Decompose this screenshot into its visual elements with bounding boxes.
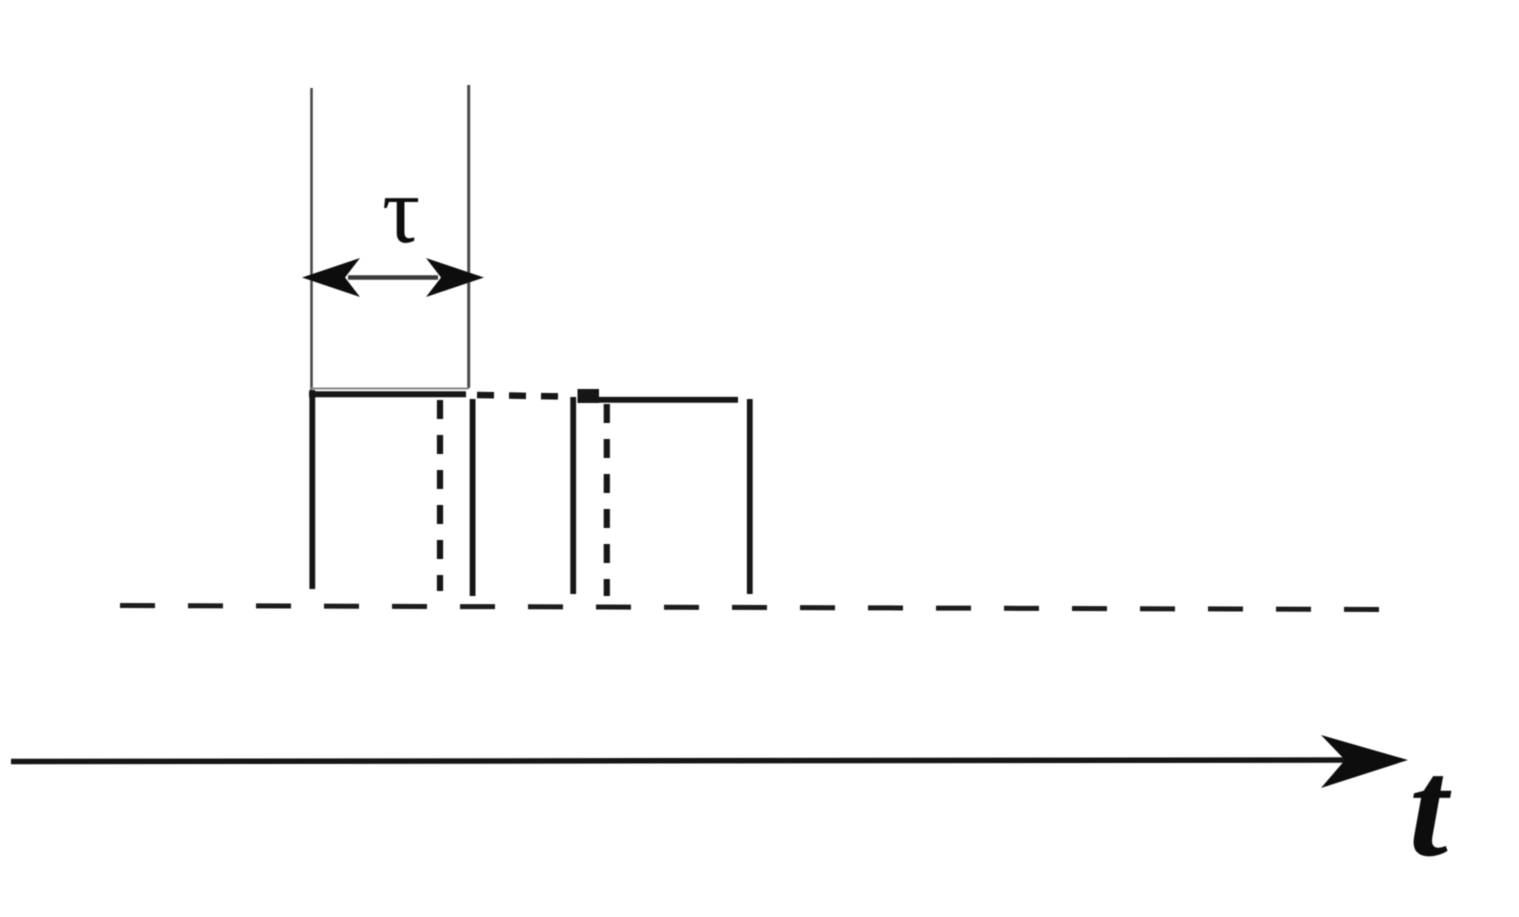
time axis — [11, 760, 1352, 762]
extension line left (tau measure) — [310, 88, 313, 391]
pulse 2 top — [595, 397, 738, 403]
thin top edge pulse 1 — [311, 388, 469, 390]
dimension arrow shaft — [348, 275, 438, 280]
svg-text:t: t — [1409, 731, 1452, 886]
dashed vertical (shifted pulse falling edge) — [604, 404, 610, 596]
arrowhead right — [426, 258, 484, 297]
pulse 1 falling edge — [470, 399, 476, 596]
pulse 2 corner blob — [578, 389, 600, 403]
time axis arrowhead — [1321, 735, 1408, 788]
baseline (dashed zero level) — [120, 606, 1390, 610]
pulse 1 top — [309, 391, 466, 397]
dashed vertical (shifted pulse rising edge) — [437, 400, 443, 591]
extension line right (tau measure) — [467, 85, 470, 388]
arrowhead left — [302, 258, 360, 297]
pulse 2 falling edge — [747, 399, 753, 594]
pulse 2 rising edge — [570, 397, 576, 594]
svg-text:τ: τ — [382, 157, 420, 263]
dotted top (shifted pulse) — [477, 395, 567, 397]
pulse 1 rising edge — [309, 390, 315, 589]
